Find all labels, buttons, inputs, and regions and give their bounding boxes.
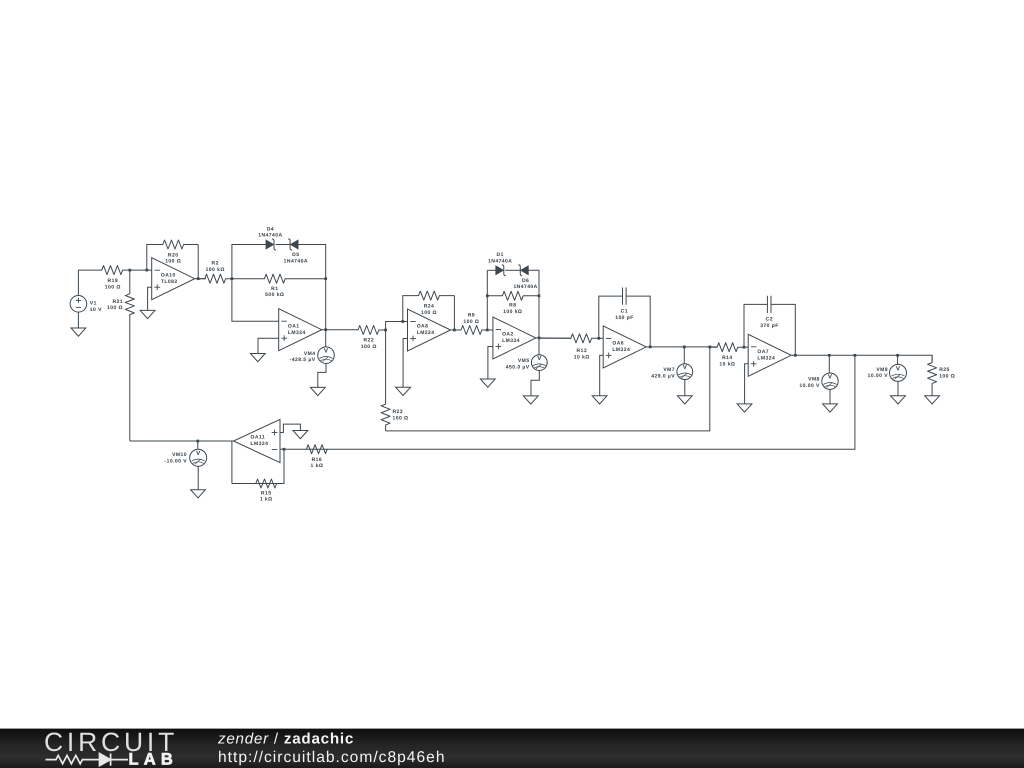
svg-text:LM324: LM324	[757, 355, 775, 361]
svg-text:10.00 V: 10.00 V	[868, 373, 889, 379]
svg-text:150 pF: 150 pF	[615, 315, 634, 321]
svg-text:OA1: OA1	[288, 323, 300, 329]
voltmeter VM9	[868, 364, 907, 381]
junction output tap	[854, 354, 857, 357]
svg-text:OA2: OA2	[502, 332, 514, 338]
wire OA7 output row	[791, 355, 932, 361]
feedback wire C1 left	[599, 296, 623, 338]
wire down to VM7	[683, 347, 685, 364]
wire node to OA10 minus input	[130, 269, 152, 271]
svg-text:100 Ω: 100 Ω	[361, 344, 377, 350]
wire VM10 to ground	[197, 466, 199, 489]
op-amp OA6	[603, 326, 646, 368]
svg-text:R8: R8	[509, 303, 516, 309]
svg-text:D4: D4	[267, 226, 274, 232]
logo resistor symbol	[46, 755, 96, 763]
url	[218, 749, 446, 766]
wire into OA2 minus	[487, 329, 493, 331]
wire VM5 to ground	[531, 371, 539, 396]
feedback wire C1 right	[626, 296, 650, 347]
svg-text:LM324: LM324	[288, 330, 306, 336]
svg-text:1N4740A: 1N4740A	[513, 284, 537, 290]
resistor R25	[928, 355, 956, 396]
junction at OA2 output	[538, 337, 541, 340]
wire node A down to OA1 minus	[232, 279, 279, 322]
svg-text:LAB: LAB	[129, 750, 179, 768]
logo text CIRCUIT	[44, 727, 178, 757]
svg-text:370 pF: 370 pF	[760, 323, 779, 329]
wire OA11 plus to ground	[280, 424, 300, 432]
svg-text:LM324: LM324	[251, 441, 269, 447]
svg-text:100 Ω: 100 Ω	[165, 259, 181, 265]
svg-text:R24: R24	[424, 304, 435, 310]
svg-text:VM10: VM10	[172, 452, 187, 458]
wire OA6 output row	[646, 346, 717, 348]
wire OA11 output up to node	[129, 317, 131, 441]
wire OA2 plus to ground	[488, 347, 493, 380]
op-amp OA1	[279, 309, 322, 351]
svg-text:V1: V1	[90, 300, 97, 306]
svg-text:1N4740A: 1N4740A	[488, 259, 512, 265]
svg-text:http://circuitlab.com/c8p46eh: http://circuitlab.com/c8p46eh	[218, 749, 446, 766]
svg-text:OA10: OA10	[161, 272, 176, 278]
svg-text:10 V: 10 V	[90, 307, 102, 313]
resistor R9	[454, 313, 487, 335]
ground below VM7	[677, 396, 692, 404]
junction at OA10 minus	[145, 269, 148, 272]
svg-text:R2: R2	[212, 261, 219, 267]
junction VM8	[828, 354, 831, 357]
wire down to VM4	[325, 330, 327, 347]
svg-text:OA11: OA11	[251, 435, 266, 441]
svg-text:OA6: OA6	[612, 341, 624, 347]
ground at OA6 plus	[592, 396, 607, 404]
zener diode D6	[513, 265, 537, 291]
ground at OA8 plus	[396, 387, 411, 395]
svg-text:zender / zadachic: zender / zadachic	[217, 731, 354, 748]
svg-text:D6: D6	[522, 278, 529, 284]
junction D at OA7 minus	[743, 346, 746, 349]
title zender / zadachic	[217, 731, 354, 748]
wire output tap down and left	[327, 355, 855, 449]
wire OA1 output to R22	[322, 329, 359, 331]
resistor R23	[381, 330, 408, 431]
resistor R19	[102, 266, 130, 291]
ground below VM9	[891, 396, 906, 404]
resistor R16	[284, 445, 327, 470]
wire node A up to diode row	[232, 245, 266, 279]
wire OA7 plus to ground	[745, 364, 749, 404]
wire into OA7 minus	[744, 346, 748, 348]
wire OA2 output to R13	[536, 337, 571, 339]
wire B up to OA8 minus	[386, 322, 408, 331]
svg-text:C2: C2	[766, 316, 773, 322]
svg-text:100 Ω: 100 Ω	[105, 284, 121, 290]
wire down to VM10	[197, 441, 199, 449]
feedback wire R15 left	[231, 441, 233, 484]
zener diode D1	[488, 252, 512, 276]
svg-text:R16: R16	[312, 457, 323, 463]
capacitor C2	[760, 296, 779, 329]
ground at OA10 plus	[140, 310, 155, 318]
ground at OA1 plus	[250, 354, 265, 362]
junction at OA10 output	[197, 277, 200, 280]
svg-text:TL082: TL082	[161, 279, 178, 285]
junction feedback tap	[708, 346, 711, 349]
wire down to VM5	[538, 338, 540, 355]
junction VM7	[683, 346, 686, 349]
wire into OA6 minus	[599, 337, 603, 339]
wire D6 to right vertical	[528, 270, 539, 338]
svg-text:R23: R23	[393, 409, 404, 415]
resistor R8	[487, 291, 539, 315]
wire down to VM9	[897, 355, 899, 364]
wire into OA11 minus	[280, 448, 284, 450]
logo diode symbol	[95, 754, 128, 766]
svg-text:R14: R14	[722, 355, 733, 361]
svg-text:VM7: VM7	[663, 367, 675, 373]
resistor R15	[232, 479, 284, 503]
resistor R1	[232, 274, 326, 298]
wire D5 to right vertical	[298, 245, 326, 279]
svg-text:VM9: VM9	[876, 367, 888, 373]
svg-text:VM4: VM4	[304, 351, 316, 357]
voltage source V1	[70, 296, 102, 313]
wire OA8 plus to ground	[403, 339, 407, 388]
op-amp OA10	[152, 258, 195, 300]
zener diode D4	[258, 226, 282, 250]
resistor R20	[155, 240, 198, 265]
svg-text:10 kΩ: 10 kΩ	[719, 362, 735, 368]
wire R23 bottom loop	[386, 347, 710, 431]
svg-text:R15: R15	[261, 490, 272, 496]
voltmeter VM10	[164, 449, 206, 466]
wire OA11 output row	[130, 440, 234, 442]
svg-text:450.0 µV: 450.0 µV	[506, 365, 530, 371]
svg-text:OA7: OA7	[757, 349, 769, 355]
feedback wire R24 right	[453, 296, 455, 330]
svg-text:D5: D5	[292, 252, 299, 258]
svg-text:100 Ω: 100 Ω	[463, 319, 479, 325]
junction VM9	[896, 354, 899, 357]
capacitor C1	[615, 287, 634, 321]
wire between D4 and D5	[276, 244, 291, 246]
voltmeter VM5	[506, 355, 547, 371]
svg-text:500 kΩ: 500 kΩ	[265, 292, 284, 298]
svg-text:R21: R21	[112, 299, 123, 305]
svg-text:R1: R1	[271, 286, 278, 292]
footer bar	[0, 729, 1024, 768]
wire right vertical down to OA1 output	[325, 279, 327, 330]
feedback wire C2 right	[771, 304, 795, 355]
junction at OA2 minus	[486, 329, 489, 332]
svg-text:R9: R9	[468, 313, 475, 319]
ground at OA7 plus	[737, 404, 752, 412]
svg-text:LM324: LM324	[502, 338, 520, 344]
node at R19/R21	[128, 269, 131, 272]
resistor R13	[539, 334, 599, 361]
svg-text:R25: R25	[939, 367, 950, 373]
voltmeter VM7	[651, 364, 692, 380]
svg-text:VM5: VM5	[518, 358, 530, 364]
wire OA10 output	[195, 278, 206, 280]
feedback wire R20 right	[197, 245, 199, 279]
svg-text:10.00 V: 10.00 V	[799, 383, 820, 389]
wire OA2 minus vertical up	[486, 270, 488, 330]
svg-text:R13: R13	[577, 348, 588, 354]
junction at OA7 output	[794, 354, 797, 357]
voltmeter VM4	[290, 347, 335, 364]
svg-text:OA8: OA8	[417, 324, 429, 330]
resistor R24	[411, 291, 454, 316]
wire VM7 to ground	[684, 380, 686, 396]
resistor R21	[107, 270, 134, 317]
feedback wire R15 right	[277, 449, 284, 483]
svg-text:1N4740A: 1N4740A	[284, 258, 308, 264]
ground below VM8	[823, 404, 838, 412]
ground at OA11 plus	[293, 431, 308, 439]
ground below R25	[925, 396, 940, 404]
junction VM10	[196, 440, 199, 443]
svg-text:-10.00 V: -10.00 V	[164, 459, 187, 465]
junction at OA11 minus	[283, 448, 286, 451]
feedback wire C2 left	[744, 304, 767, 347]
svg-text:1 kΩ: 1 kΩ	[311, 463, 324, 469]
op-amp OA2	[493, 317, 536, 359]
svg-text:100 kΩ: 100 kΩ	[503, 309, 522, 315]
zener diode D5	[284, 239, 308, 265]
voltmeter VM8	[799, 373, 838, 389]
wire OA6 plus to ground	[600, 355, 604, 395]
feedback wire R20 left	[147, 245, 155, 271]
wire V1 bottom	[77, 312, 79, 328]
svg-text:1N4740A: 1N4740A	[258, 233, 282, 239]
feedback wire R24 left	[403, 296, 411, 322]
junction C at OA6 minus	[597, 337, 600, 340]
svg-text:100 Ω: 100 Ω	[393, 416, 409, 422]
svg-text:R20: R20	[168, 252, 179, 258]
svg-text:100 Ω: 100 Ω	[421, 310, 437, 316]
svg-text:D1: D1	[497, 252, 504, 258]
junction B	[384, 329, 387, 332]
junction R8 right	[538, 294, 541, 297]
svg-text:100 Ω: 100 Ω	[107, 305, 123, 311]
logo text LAB	[129, 750, 179, 768]
ground below VM4	[310, 387, 325, 395]
ground below VM5	[523, 396, 538, 404]
wire between D1 and D6	[505, 269, 520, 271]
op-amp OA11	[234, 419, 281, 462]
wire diode row left	[487, 269, 496, 271]
ground at OA2 plus	[480, 379, 495, 387]
svg-text:10 kΩ: 10 kΩ	[574, 355, 590, 361]
svg-text:C1: C1	[621, 309, 628, 315]
svg-text:-428.5 µV: -428.5 µV	[290, 357, 316, 363]
svg-text:VM8: VM8	[808, 376, 820, 382]
resistor R14	[710, 343, 744, 368]
svg-text:R22: R22	[364, 338, 375, 344]
junction R8 left	[486, 294, 489, 297]
junction at OA6 output	[649, 346, 652, 349]
svg-text:LM324: LM324	[612, 347, 630, 353]
ground below VM10	[191, 490, 206, 498]
wire OA8 output to R9	[451, 329, 462, 331]
wire OA1 plus to ground	[258, 338, 279, 353]
ground below V1	[71, 328, 86, 336]
wire down to VM8	[828, 355, 830, 373]
junction at OA8 output	[453, 329, 456, 332]
junction diode/R1 right	[324, 277, 327, 280]
wire OA10 plus to ground	[148, 287, 152, 310]
junction at OA1 output	[324, 328, 327, 331]
wire VM8 to ground	[829, 389, 831, 404]
node A	[231, 277, 234, 280]
svg-text:429.0 µV: 429.0 µV	[651, 374, 675, 380]
svg-text:100 Ω: 100 Ω	[939, 373, 955, 379]
op-amp OA7	[748, 334, 791, 376]
wire VM9 to ground	[897, 381, 899, 395]
op-amp OA8	[408, 309, 451, 351]
junction R24 left	[401, 320, 404, 323]
resistor R2	[198, 261, 232, 284]
wire VM4 to ground	[318, 364, 326, 388]
svg-text:LM324: LM324	[417, 330, 435, 336]
wire V1 top to R19	[78, 270, 102, 295]
svg-text:100 kΩ: 100 kΩ	[206, 267, 225, 273]
svg-text:1 kΩ: 1 kΩ	[260, 497, 273, 503]
resistor R22	[358, 326, 386, 351]
svg-text:R19: R19	[108, 278, 119, 284]
